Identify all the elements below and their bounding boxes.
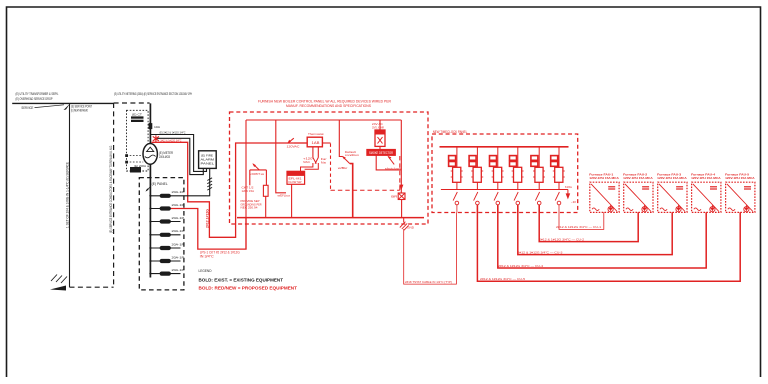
fuse-switch unit FS6 [558,147,560,168]
node: terminal dots [125,154,128,157]
svg-text:(E) CT: (E) CT [132,113,142,117]
svg-text:w/EFLbox: w/EFLbox [278,194,291,198]
relay BR [398,193,405,200]
wire: vertical B [276,120,286,193]
wire: LPS-1 circuit (red) [171,209,246,250]
wire [294,142,307,144]
meter CT [131,116,144,122]
switch blade SW5 [535,192,539,201]
wire: service drop vertical [69,103,71,287]
svg-text:BOLD: RED/NEW = PROPOSED EQUIP: BOLD: RED/NEW = PROPOSED EQUIPMENT [199,286,298,291]
fuse-switch unit FS5 [538,147,540,168]
breaker CB7 [150,273,180,275]
contactor K3 [494,167,502,182]
wire: branch circuit to CU-3 [518,212,672,254]
enclosure: utility meter compartment (dotted) [127,110,149,171]
relay block: smoke detector [367,149,396,155]
svg-text:20A-1P: 20A-1P [172,203,185,207]
enclosure: disconnect switch group (red dashed) [432,134,578,213]
wire: bold drop to bus [350,164,353,218]
conduit flex squiggle [207,178,212,190]
wire: branch circuit to CU-4 [498,212,706,268]
meter PT [130,167,141,173]
wire: FACP feed 1 [150,135,206,172]
svg-text:c/DPDT sw: c/DPDT sw [251,172,265,176]
svg-text:MANUF. RECOMMENDATIONS AND SPE: MANUF. RECOMMENDATIONS AND SPECIFICATION… [286,104,372,108]
svg-text:20A-1P: 20A-1P [172,242,185,246]
svg-text:2#12,1#12G: 2#12,1#12G [205,209,209,228]
fan motor symbol [608,207,613,212]
svg-text:(E) SERVICE ENTRANCE CONDUCTOR: (E) SERVICE ENTRANCE CONDUCTORS & RACEWA… [109,145,113,233]
wire: output drop [517,205,519,213]
svg-text:(E) WEATHERHEAD: (E) WEATHERHEAD [71,108,88,112]
enclosure: boiler control panel (red dashed) [230,112,429,224]
svg-text:(E) PANEL: (E) PANEL [152,182,168,186]
meter M1 [143,144,157,165]
wire: branch circuit to CU-5 [477,212,740,281]
wire: to flow switch [301,163,313,171]
svg-text:PANEL: PANEL [201,162,215,166]
switch blade SW3 [494,192,498,201]
svg-text:CNTL XFMR: CNTL XFMR [372,126,384,130]
wire: panel label arrow [146,186,151,191]
contactor K5 [535,167,543,182]
fuse-switch unit FS3 [497,147,499,168]
svg-text:Na: Na [321,160,327,164]
svg-text:120V-1PH 15A MCA: 120V-1PH 15A MCA [623,176,653,180]
svg-text:-0: -0 [571,200,577,204]
svg-text:(E) 2#12 & 1#12G 3/4"C: (E) 2#12 & 1#12G 3/4"C [160,131,187,135]
wire: service bus [12,102,113,104]
svg-text:NEC 250.94: NEC 250.94 [241,206,259,210]
flow switch EFL-M1 [287,171,305,184]
wire: lower rail [441,189,568,191]
switch blade SW1 [453,192,457,201]
svg-text:120V-1PH 15A MCA: 120V-1PH 15A MCA [589,176,619,180]
wire: output drop [497,205,499,213]
svg-text:20A-1P: 20A-1P [172,190,185,194]
svg-text:BR: BR [391,195,398,199]
breaker CB5 [150,247,180,249]
wire: BR coil branch [400,120,402,193]
fuse-switch unit FS2 [476,147,478,168]
wire: vertical A [245,120,247,249]
wire: box2 supply bus [440,146,569,148]
wire: output drop [456,205,458,213]
wire [291,184,293,217]
contactor K2 [473,167,481,182]
switch blade SW2 [474,192,478,201]
node: splice X [153,135,159,142]
svg-text:2#12 & 1#12G 3/4"C — CU-3: 2#12 & 1#12G 3/4"C — CU-3 [517,250,562,254]
contactor K4 [514,167,522,182]
resistor R1 [263,185,268,196]
svg-text:20A-1P: 20A-1P [172,229,185,233]
wire: output drop [538,205,540,213]
svg-text:LEGEND: LEGEND [199,269,213,273]
wire: output drop [558,205,560,213]
fan motor symbol [744,207,749,212]
wire: branch circuit to CU-1 [559,212,604,229]
contactor K1 [453,167,461,182]
fan motor symbol [710,207,715,212]
svg-text:120V 15A: 120V 15A [242,189,255,193]
svg-text:24V AC: 24V AC [372,122,383,126]
svg-text:VAC: VAC [303,160,310,164]
svg-text:2#12 & 1#12G 3/4"C: 2#12 & 1#12G 3/4"C [160,139,182,143]
switch S5 [388,157,394,165]
wire: leader [35,105,65,108]
svg-text:FLOW SW: FLOW SW [289,180,302,184]
svg-text:10A: 10A [154,125,160,129]
svg-text:IN 3/4"C: IN 3/4"C [200,255,215,259]
wire: thermostat secondary pair [312,147,314,158]
svg-text:BOLD: EXIST. = EXISTING EQUIPM: BOLD: EXIST. = EXISTING EQUIPMENT [199,278,284,283]
fuse-switch unit FS4 [517,147,519,168]
svg-text:1AB: 1AB [312,141,321,145]
enclosure: smoke section (inner dashed) [331,189,400,191]
wire: panel top rail [246,119,401,121]
svg-text:120VAC: 120VAC [287,144,301,148]
wire: FACP circuit riser [209,168,211,196]
svg-text:condition: condition [345,153,359,157]
svg-text:200A MCB: 200A MCB [159,155,170,159]
svg-text:2#12 & 1#12G 3/4"C — CU-4: 2#12 & 1#12G 3/4"C — CU-4 [498,264,543,268]
svg-text:Thermostat: Thermostat [308,132,324,136]
svg-text:20A-1P: 20A-1P [172,255,185,259]
svg-text:GND: GND [407,226,414,230]
ground: panel [403,218,405,223]
fuse: main [149,123,153,129]
wire: control interlock (thin) [404,213,457,285]
svg-text:SMOKE DETECTOR: SMOKE DETECTOR [369,151,393,155]
breaker CB4 [150,234,180,236]
breaker CB2 [150,208,171,210]
svg-text:SERVICE: SERVICE [21,106,34,110]
breaker CB1 [150,195,209,197]
wire: CT dashed taps [127,155,144,157]
panelboard LP-1 enclosure [139,178,184,290]
svg-text:FURNISH NEW BOILER CONTROL PAN: FURNISH NEW BOILER CONTROL PANEL W/ ALL … [258,100,392,104]
wire: right branch [339,120,342,157]
breaker CB6 [150,260,180,262]
switch blade SW4 [514,192,518,201]
wire: L run [376,155,401,170]
wire: FACP feed 2 [156,138,203,174]
boundary: meter section dashed top edge [114,102,150,104]
ground electrode [51,275,57,282]
svg-text:w/Bkr: w/Bkr [338,166,348,170]
switch S2 (dual blade) [313,158,316,164]
contactor K6 [555,167,563,182]
svg-text:120V-1PH 15A MCA: 120V-1PH 15A MCA [725,176,755,180]
wire: output drop [476,205,478,213]
breaker CB3 [150,221,180,223]
svg-text:(E) UTILITY TRANSFORMER & SERV: (E) UTILITY TRANSFORMER & SERV. [16,92,59,96]
wire: branch circuit to CU-2 [539,212,638,241]
fan motor symbol [676,207,681,212]
wire: ground dashed run [70,286,114,288]
svg-text:2#18 TSTAT CABLE IN 1/2"C (TYP: 2#18 TSTAT CABLE IN 1/2"C (TYP) [405,280,452,284]
switch blade SW6 [555,192,559,201]
svg-text:2#12 & 1#12G 3/4"C — CU-5: 2#12 & 1#12G 3/4"C — CU-5 [480,277,525,281]
svg-text:20A-1P: 20A-1P [172,216,185,220]
svg-text:2#12 & 1#12G 3/4"C — CU-1: 2#12 & 1#12G 3/4"C — CU-1 [556,225,601,229]
switch S3 and divider [250,169,267,171]
svg-text:2#12 & 1#12G 3/4"C — CU-2: 2#12 & 1#12G 3/4"C — CU-2 [539,237,584,241]
fuse-switch unit FS1 [456,147,458,168]
svg-text:(E) UTILITY METERING (200A) (E: (E) UTILITY METERING (200A) (E) SERVICE … [114,92,192,96]
switch S1 [288,138,294,143]
svg-text:NEW TIMECLOCK PANEL: NEW TIMECLOCK PANEL [433,130,468,134]
svg-text:(E) OVERHEAD SERVICE DROP: (E) OVERHEAD SERVICE DROP [16,97,53,101]
fire alarm panel U-FACP [199,151,217,169]
svg-text:120V-1PH 15A MCA: 120V-1PH 15A MCA [657,176,687,180]
svg-text:20A-1P: 20A-1P [172,268,185,272]
svg-text:N/G: N/G [565,185,572,189]
svg-text:120V-1PH 15A MCA: 120V-1PH 15A MCA [691,176,721,180]
fan motor symbol [642,207,647,212]
svg-text:(E) 200A: (E) 200A [134,164,146,168]
svg-text:1 SET OF 2#4 & 1#8G IN 1-1/4"C: 1 SET OF 2#4 & 1#8G IN 1-1/4"C (E) SERVI… [65,162,69,228]
node: tap arrow [64,104,71,110]
wire: panel ground bus [237,217,424,219]
wire: thermostat low-voltage stub (dashed) [322,142,330,144]
wire: new circuit from meter (red) [152,142,309,237]
boundary: meter section dashed left edge [113,103,115,287]
wire: main bus [149,103,151,277]
node: rail end arrow [567,190,569,195]
